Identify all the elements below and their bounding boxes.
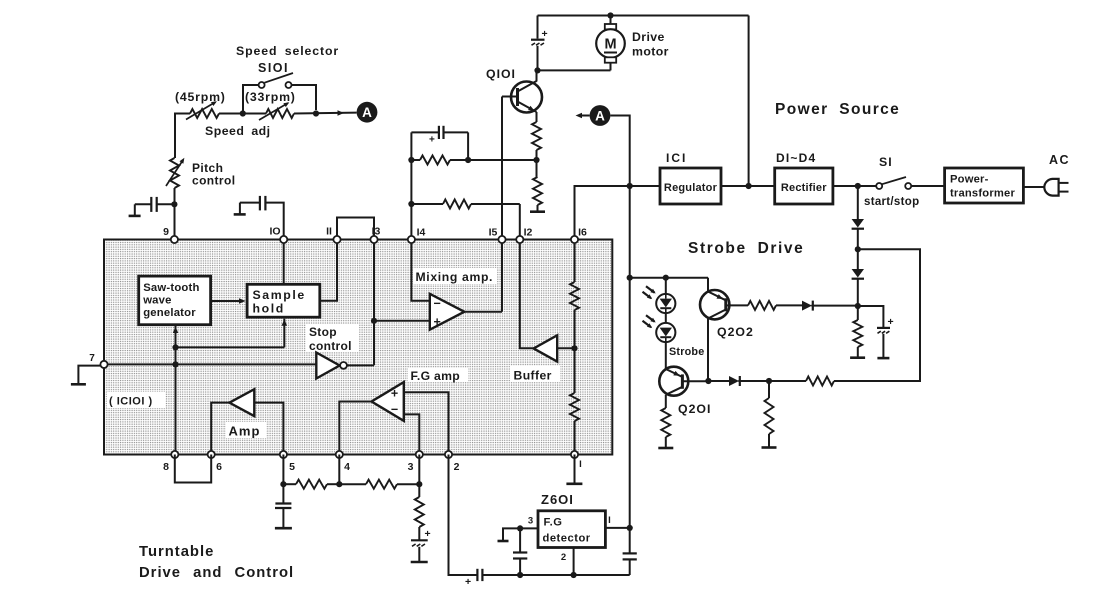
node junction pin3: [416, 481, 422, 487]
label pin 6: [216, 461, 222, 473]
label Buffer: [510, 366, 560, 383]
switch S1 start/stop: [876, 177, 911, 189]
label Mixing amp.: [413, 268, 497, 284]
label pin 16: [578, 227, 587, 239]
svg-text:A: A: [362, 105, 372, 120]
capacitor electrolytic (strobe): [858, 306, 894, 358]
svg-text:+: +: [425, 528, 431, 540]
svg-text:(45rpm): (45rpm): [175, 90, 226, 104]
wire transformer to plug: [1023, 186, 1045, 188]
label pin 11: [326, 226, 332, 238]
svg-text:QIOI: QIOI: [486, 67, 516, 81]
svg-text:+: +: [542, 28, 548, 40]
node junction after 33rpm: [313, 110, 319, 116]
resistor below chain low: [850, 306, 865, 358]
node junction Q201 base: [705, 378, 711, 384]
svg-text:II: II: [326, 226, 332, 238]
node junction feedback: [172, 344, 178, 350]
diode D (chain 1): [852, 219, 864, 229]
wire pin16 riser: [575, 186, 661, 239]
wire speed line left: [175, 113, 190, 115]
resistor Q101 emitter lower: [530, 160, 545, 212]
wire sawtooth feedback: [173, 319, 287, 454]
pin 15: [498, 236, 505, 243]
svg-text:SI: SI: [879, 155, 893, 169]
wire pin1 ground: [566, 455, 582, 484]
svg-text:Q2OI: Q2OI: [678, 402, 711, 416]
resistor lower (pin14-pin12): [411, 200, 519, 209]
wire diode chain seg3: [857, 279, 859, 306]
node junction chain mid: [855, 246, 861, 252]
LED strobe 1: [643, 278, 676, 313]
wire LED to Q201: [665, 342, 667, 369]
node junction LED chain top: [663, 275, 669, 281]
LED strobe 2: [643, 313, 676, 342]
svg-text:−: −: [434, 297, 441, 311]
svg-text:I: I: [579, 459, 582, 470]
wire jumper pin11-pin13: [337, 218, 374, 240]
label S1: [879, 155, 893, 169]
svg-text:8: 8: [163, 461, 169, 473]
svg-text:Buffer: Buffer: [514, 369, 552, 383]
wire F.G amp out to pin4: [339, 402, 371, 455]
svg-text:I4: I4: [417, 227, 426, 239]
label (45rpm): [175, 90, 226, 104]
svg-text:I: I: [608, 515, 611, 526]
svg-text:2: 2: [561, 552, 566, 563]
node junction bus/LED rail: [627, 275, 633, 281]
node A (top-left): [357, 102, 378, 123]
node junction buffer input: [571, 345, 577, 351]
ground at pin 7: [71, 366, 101, 385]
pin 13: [370, 236, 377, 243]
svg-text:+: +: [465, 576, 471, 588]
label pin 2: [454, 461, 460, 473]
diode D (Q202 base): [802, 301, 858, 311]
svg-text:DI~D4: DI~D4: [776, 151, 816, 165]
label Stop control: [306, 324, 359, 353]
resistor Q201 emitter: [658, 395, 673, 448]
transistor Q101: [502, 81, 542, 113]
capacitor at pin 10: [234, 196, 284, 239]
node junction pin4: [336, 481, 342, 487]
wire diode chain seg2: [857, 229, 859, 269]
wire top rail: [538, 15, 749, 17]
svg-text:F.G: F.G: [544, 517, 563, 529]
svg-text:3: 3: [528, 516, 533, 527]
wire switch to transformer: [911, 185, 944, 187]
svg-text:Amp: Amp: [229, 424, 261, 439]
node junction pin7/pin8: [172, 361, 178, 367]
resistor pin16 internal upper: [570, 239, 579, 393]
node A (power side): [576, 105, 611, 126]
label Amp: [226, 422, 266, 439]
label pin 4: [344, 461, 350, 473]
node junction 14c: [408, 201, 414, 207]
resistor Q202 base: [726, 301, 802, 310]
label Q202: [717, 325, 754, 339]
node junction motor top: [607, 12, 613, 18]
rectifier D1-D4 box: [775, 168, 833, 204]
wire diode chain seg1: [857, 186, 859, 219]
node junction under Q101: [533, 157, 539, 163]
resistor below node: [762, 381, 777, 448]
pin 5: [280, 451, 287, 458]
wire Q101 base to pin15: [501, 97, 503, 240]
svg-text:( ICIOI ): ( ICIOI ): [109, 396, 153, 408]
node junction diode chain top: [855, 183, 861, 189]
wire pin10 into sample: [283, 239, 285, 284]
svg-text:Stop: Stop: [309, 325, 337, 339]
node junction 14b: [465, 157, 471, 163]
svg-text:Power-: Power-: [950, 174, 989, 186]
svg-text:Drive: Drive: [632, 30, 665, 44]
pin 11: [333, 236, 340, 243]
amp (triangle): [229, 389, 283, 454]
node junction 45/33: [240, 110, 246, 116]
svg-text:detector: detector: [543, 533, 591, 545]
label pin 9: [163, 226, 169, 238]
pin 1: [571, 451, 578, 458]
svg-text:control: control: [192, 174, 235, 188]
svg-text:Mixing amp.: Mixing amp.: [416, 270, 494, 284]
resistor speed adj 45rpm: [186, 101, 219, 119]
wire bus mid: [629, 186, 631, 528]
svg-text:Strobe Drive: Strobe Drive: [688, 240, 804, 257]
svg-text:+: +: [434, 315, 441, 329]
svg-text:5: 5: [289, 461, 295, 473]
op-amp F.G amp: [372, 382, 449, 454]
wire rectifier to switch: [833, 185, 876, 187]
box Sample hold: [247, 284, 320, 317]
resistor Q101 emitter upper: [532, 112, 541, 160]
pin 2: [445, 451, 452, 458]
wire feedback to Q101 emitter node: [468, 159, 536, 161]
label pin 13: [372, 226, 381, 238]
svg-text:ICI: ICI: [666, 151, 687, 165]
svg-text:Speed selector: Speed selector: [236, 44, 339, 58]
label Strobe: [668, 344, 708, 358]
wire to node A: [294, 110, 357, 116]
capacitor at pin 9: [129, 197, 175, 216]
wire Z601 pin2: [573, 548, 575, 576]
node junction bus/regulator line: [627, 183, 633, 189]
label pin 15: [489, 227, 498, 239]
wire pin5 drop: [282, 455, 284, 485]
wire Q101 collector up: [536, 70, 538, 81]
svg-text:Sample: Sample: [253, 288, 306, 302]
wire pin12 riser: [519, 204, 521, 239]
label Q201: [678, 402, 711, 416]
wire pin2 drop: [449, 455, 478, 576]
label AC: [1049, 153, 1070, 167]
wire regulator-rectifier: [721, 185, 775, 187]
IC Z601 F.G detector box: [538, 511, 605, 548]
svg-text:transformer: transformer: [950, 188, 1015, 200]
svg-text:Strobe: Strobe: [669, 346, 704, 358]
svg-text:Q2O2: Q2O2: [717, 325, 754, 339]
node junction motor rail: [746, 183, 752, 189]
inverter stop control: [316, 353, 374, 379]
ground stub Z601 pin3: [498, 528, 521, 541]
svg-text:Rectifier: Rectifier: [781, 182, 827, 194]
capacitor bus bottom: [623, 528, 637, 575]
wire Z601 pin1: [605, 527, 629, 529]
svg-text:motor: motor: [632, 45, 669, 59]
svg-text:AC: AC: [1049, 153, 1070, 167]
svg-text:IO: IO: [269, 226, 280, 238]
svg-text:−: −: [391, 403, 398, 417]
node junction pin9 cap: [171, 201, 177, 207]
op-amp mixing amp: [374, 239, 464, 330]
resistor right loop: [806, 377, 834, 386]
svg-text:Drive and Control: Drive and Control: [139, 565, 294, 581]
label Strobe Drive: [688, 240, 804, 257]
wire pin13 drop: [373, 239, 375, 365]
pin 4: [336, 451, 343, 458]
wire loop to node: [769, 380, 806, 382]
svg-text:7: 7: [89, 353, 95, 364]
power transformer box: [945, 168, 1024, 203]
svg-text:A: A: [595, 108, 605, 123]
capacitor electrolytic (motor): [531, 16, 548, 71]
svg-text:genelator: genelator: [143, 307, 196, 319]
wire sawtooth to sample arrow: [211, 298, 246, 304]
label pin 5: [289, 461, 295, 473]
svg-text:+: +: [391, 387, 398, 401]
wire buffer out to pin12: [520, 239, 534, 348]
label (IC101): [107, 392, 165, 408]
label Z601 pin 3: [528, 516, 533, 527]
wire motor bottom return: [538, 69, 611, 71]
pin 6: [208, 451, 215, 458]
resistor pin5-pin4: [283, 480, 339, 489]
wire pitch to pin 9: [174, 188, 176, 239]
switch S101: [243, 73, 316, 114]
wire amp out to pin6: [211, 403, 229, 454]
svg-text:6: 6: [216, 461, 222, 473]
label pin 7: [89, 353, 95, 364]
svg-text:+: +: [429, 135, 435, 146]
wire pin14 riser: [410, 132, 412, 239]
svg-text:hold: hold: [253, 302, 285, 316]
diode D (Q201 base): [708, 376, 769, 386]
label pin 10: [269, 226, 280, 238]
pin 3: [416, 451, 423, 458]
wire pin4 drop: [338, 455, 340, 485]
svg-text:+: +: [888, 316, 894, 328]
node junction bottom cap: [517, 572, 523, 578]
label Speed adj: [205, 124, 271, 138]
wire between speed resistors: [219, 113, 266, 115]
pin 14: [408, 236, 415, 243]
svg-text:F.G amp: F.G amp: [411, 369, 461, 383]
label pin 1: [579, 459, 582, 470]
svg-text:wave: wave: [142, 295, 171, 307]
resistor below pin3: [415, 484, 424, 540]
svg-text:Power Source: Power Source: [775, 101, 900, 118]
svg-text:I5: I5: [489, 227, 498, 239]
label Z601 pin 1: [608, 515, 611, 526]
svg-text:(33rpm): (33rpm): [245, 90, 296, 104]
pin 8: [171, 451, 178, 458]
node junction strobe mid: [766, 378, 772, 384]
potentiometer pitch control: [166, 158, 184, 188]
label S101: [258, 61, 289, 75]
capacitor series (bottom line): [465, 569, 482, 588]
wire node A to bus: [610, 116, 629, 187]
regulator IC1 box: [660, 168, 721, 204]
svg-text:Saw-tooth: Saw-tooth: [143, 282, 199, 294]
capacitor Z601 pin3: [513, 528, 527, 575]
wire mixing out to pin15: [464, 239, 502, 312]
node junction Z601 pin2: [571, 572, 577, 578]
wire pin3 drop: [418, 455, 420, 485]
label Q101: [486, 67, 516, 81]
IC IC101 block outline (shaded): [104, 240, 612, 455]
wire pin11 to sample out: [320, 239, 337, 301]
svg-text:Z6OI: Z6OI: [541, 492, 574, 507]
node junction pin5: [280, 481, 286, 487]
resistor feedback upper: [411, 156, 468, 165]
node junction 14a: [408, 157, 414, 163]
label Z601 pin 2: [561, 552, 566, 563]
capacitor feedback (pin14 loop): [411, 126, 468, 160]
motor M (drive motor): [596, 16, 625, 71]
wire chain to right loop: [834, 249, 920, 381]
label Speed selector: [236, 44, 339, 58]
label pin 14: [417, 227, 426, 239]
node junction chain low: [855, 303, 861, 309]
capacitor at pin 5: [275, 484, 292, 528]
diode D (chain 2): [852, 269, 864, 279]
label Z601: [541, 492, 574, 507]
wire jumper pin8-pin6: [175, 455, 211, 483]
label (33rpm): [245, 90, 296, 104]
label IC1: [666, 151, 687, 165]
transistor Q202 (PNP): [700, 278, 730, 320]
wire Q202 collector down: [707, 319, 709, 382]
buffer (triangle): [534, 335, 575, 361]
label Pitch control: [192, 161, 235, 188]
svg-text:Turntable: Turntable: [139, 544, 214, 560]
transistor Q201 (PNP): [659, 367, 708, 396]
pin 10: [280, 236, 287, 243]
wire pin7 line: [104, 363, 316, 365]
svg-text:M: M: [604, 37, 616, 53]
label pin 3: [408, 461, 414, 473]
wire rail drop to regulator line: [748, 16, 750, 187]
svg-text:9: 9: [163, 226, 169, 238]
label Power Source: [775, 101, 900, 118]
svg-text:I6: I6: [578, 227, 587, 239]
pin 16: [571, 236, 578, 243]
node junction Z601 pin3: [517, 525, 523, 531]
svg-text:3: 3: [408, 461, 414, 473]
svg-text:Regulator: Regulator: [664, 182, 718, 194]
wire bottom line: [482, 574, 629, 576]
svg-text:SIOI: SIOI: [258, 61, 289, 75]
wire LED rail: [630, 277, 708, 279]
label F.G amp: [408, 368, 468, 383]
wire Z601 pin3: [520, 527, 538, 529]
capacitor electrolytic below pin3: [411, 528, 431, 562]
pin 9: [171, 236, 178, 243]
node junction Q101 collector: [534, 67, 540, 73]
svg-text:2: 2: [454, 461, 460, 473]
node junction Z601 pin1: [627, 525, 633, 531]
label Drive motor: [632, 30, 669, 59]
node junction pin13/mix: [371, 318, 377, 324]
wire pitch control drop: [174, 113, 176, 159]
pin 12: [516, 236, 523, 243]
label pin 8: [163, 461, 169, 473]
caption Turntable Drive and Control: [139, 544, 294, 581]
svg-text:start/stop: start/stop: [864, 196, 919, 208]
svg-text:Speed adj: Speed adj: [205, 124, 271, 138]
label start/stop: [864, 196, 919, 208]
label pin 12: [524, 227, 533, 239]
resistor pin16 internal lower: [570, 393, 579, 454]
label D1~D4: [776, 151, 816, 165]
resistor speed adj 33rpm: [259, 102, 294, 120]
svg-text:I2: I2: [524, 227, 533, 239]
AC plug: [1044, 179, 1068, 196]
svg-text:4: 4: [344, 461, 350, 473]
resistor pin4-pin3: [339, 480, 419, 489]
box Saw-tooth wave generator: [139, 276, 211, 325]
pin 7: [100, 361, 107, 368]
